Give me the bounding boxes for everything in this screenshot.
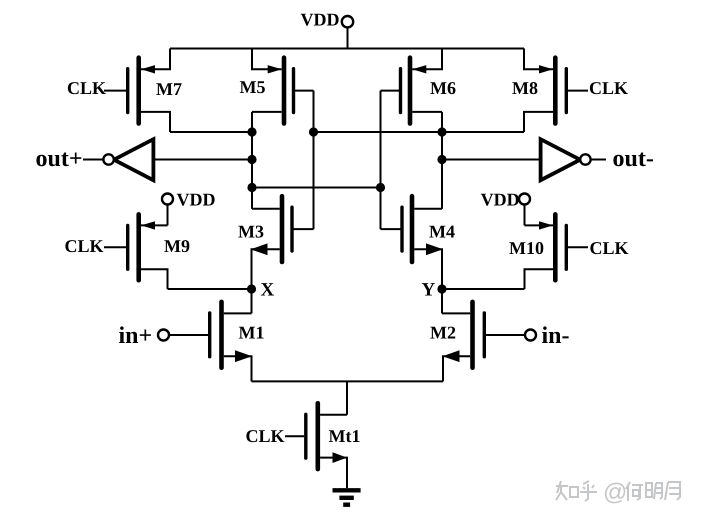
wire bus right y132 (M8/M6 drains to gate-tie) <box>314 131 525 133</box>
svg-text:in-: in- <box>542 323 570 349</box>
svg-text:M5: M5 <box>240 77 266 97</box>
svg-text:M2: M2 <box>430 323 456 343</box>
op-amp U1 (out+ inverter) <box>103 139 153 180</box>
svg-text:CLK: CLK <box>67 78 106 98</box>
node X dot <box>247 284 256 293</box>
junction dot cross-couple right <box>376 183 385 192</box>
junction dot out+ tap <box>247 155 256 164</box>
transistor M3 (NMOS) <box>251 196 314 289</box>
transistor M5 (PMOS) <box>252 49 314 124</box>
wire node X down to M1 drain <box>251 289 253 313</box>
transistor M1 (NMOS input) <box>210 302 252 382</box>
transistor M2 (NMOS input) <box>442 302 484 382</box>
wire tail rail <box>252 380 444 382</box>
transistor M4 (NMOS) <box>381 196 444 289</box>
wire cross-couple y187.5 <box>252 187 381 189</box>
svg-text:M7: M7 <box>156 79 182 99</box>
wire gate-tie vertical left (M5/M3 gates) <box>313 91 315 230</box>
svg-text:M10: M10 <box>509 238 544 258</box>
svg-text:CLK: CLK <box>246 426 285 446</box>
VDD terminal of M9 <box>162 194 173 226</box>
svg-text:M4: M4 <box>429 222 455 242</box>
wire out+ line <box>153 159 252 161</box>
junction dot at out+ bus <box>247 127 256 136</box>
wire in+ lead <box>169 334 208 336</box>
svg-text:M8: M8 <box>512 78 538 98</box>
svg-text:CLK: CLK <box>589 78 628 98</box>
wire M10 drain to node Y <box>442 288 525 290</box>
VDD terminal of M10 <box>519 194 530 226</box>
transistor Mt1 (NMOS tail) <box>285 403 347 488</box>
ground <box>333 490 361 504</box>
wire node Y down to M2 drain <box>441 289 443 313</box>
in- terminal <box>525 330 536 341</box>
wire M9 drain to node X <box>168 288 252 290</box>
wire node out- vertical <box>441 112 443 209</box>
svg-text:M1: M1 <box>239 323 265 343</box>
op-amp U2 (out- inverter) <box>541 139 591 180</box>
wire in- lead <box>486 334 525 336</box>
svg-text:X: X <box>261 280 275 301</box>
wire gate-tie vertical right (M6/M4 gates) <box>380 91 382 230</box>
transistor M7 (PMOS) <box>104 49 170 133</box>
wire out- terminal lead <box>591 159 606 161</box>
in+ terminal <box>158 330 169 341</box>
svg-text:out-: out- <box>613 146 654 172</box>
svg-text:VDD: VDD <box>481 190 520 210</box>
junction dot at out- bus <box>437 127 446 136</box>
transistor M6 (PMOS) <box>381 49 443 124</box>
svg-text:@: @ <box>603 479 627 506</box>
wire bus left y132 (M7 drain to out+ node) <box>170 131 252 133</box>
node Y dot <box>437 284 446 293</box>
svg-text:M3: M3 <box>238 222 264 242</box>
VDD terminal (top) <box>342 16 353 27</box>
svg-text:CLK: CLK <box>65 236 104 256</box>
wire out+ terminal lead <box>83 159 103 161</box>
transistor M10 (PMOS reset) <box>525 214 589 289</box>
svg-text:Mt1: Mt1 <box>329 426 361 446</box>
svg-text:out+: out+ <box>36 146 83 172</box>
wire VDD stem <box>347 28 349 49</box>
transistor M9 (PMOS reset) <box>104 214 168 289</box>
junction dot cross-couple left <box>247 183 256 192</box>
svg-text:Y: Y <box>422 280 436 301</box>
svg-text:VDD: VDD <box>301 10 340 30</box>
wire node out+ vertical <box>251 112 253 209</box>
transistor M8 (PMOS) <box>524 49 588 133</box>
watermark 知乎 @何明月 <box>556 481 680 501</box>
svg-text:VDD: VDD <box>177 190 216 210</box>
wire VDD rail <box>170 48 524 50</box>
svg-text:in+: in+ <box>119 323 153 349</box>
junction dot gate-tie left on bus <box>309 127 318 136</box>
svg-text:M6: M6 <box>430 78 456 98</box>
wire out- line <box>442 159 541 161</box>
junction dot out- tap <box>437 155 446 164</box>
svg-text:CLK: CLK <box>590 238 629 258</box>
wire tail rail to Mt1 drain <box>346 381 348 414</box>
svg-text:M9: M9 <box>164 236 190 256</box>
